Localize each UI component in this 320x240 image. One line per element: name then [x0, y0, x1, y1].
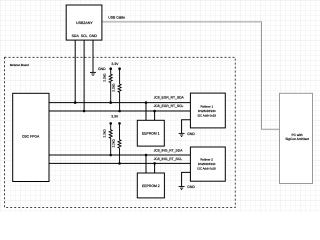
svg-text:SCL: SCL	[81, 34, 88, 38]
svg-text:2.2kΩ: 2.2kΩ	[103, 129, 107, 138]
svg-text:JC8_ING_RT_SCL: JC8_ING_RT_SCL	[154, 157, 183, 161]
svg-text:3.3V: 3.3V	[111, 115, 119, 119]
svg-text:I2C Addr 0x18: I2C Addr 0x18	[197, 167, 216, 171]
svg-text:2.2kΩ: 2.2kΩ	[112, 83, 116, 92]
svg-text:2.2kΩ: 2.2kΩ	[112, 139, 116, 148]
svg-text:USB Cable: USB Cable	[108, 15, 125, 19]
svg-text:EEPROM 1: EEPROM 1	[142, 131, 160, 135]
svg-text:EEPROM 2: EEPROM 2	[142, 184, 160, 188]
svg-text:JC8_EGR_RT_SCL: JC8_EGR_RT_SCL	[154, 104, 184, 108]
svg-text:USB2ANY: USB2ANY	[76, 21, 93, 25]
svg-text:Retimer 2: Retimer 2	[200, 157, 213, 161]
svg-text:GND: GND	[187, 132, 195, 136]
svg-text:Retimer 1: Retimer 1	[201, 104, 214, 108]
svg-text:JC8_ING_RT_SDA: JC8_ING_RT_SDA	[154, 149, 184, 153]
svg-text:SigCon Architect: SigCon Architect	[285, 137, 309, 141]
svg-text:I2C Addr 0x18: I2C Addr 0x18	[198, 114, 217, 118]
svg-text:DS250DF230: DS250DF230	[198, 109, 216, 113]
svg-text:SDA: SDA	[72, 34, 80, 38]
svg-text:GND: GND	[89, 34, 97, 38]
svg-text:JC8_EGR_RT_SDA: JC8_EGR_RT_SDA	[154, 96, 185, 100]
svg-text:GND: GND	[98, 67, 106, 71]
svg-text:3.3V: 3.3V	[111, 62, 119, 66]
svg-text:GND: GND	[187, 185, 195, 189]
svg-text:DS250DF230: DS250DF230	[198, 162, 216, 166]
svg-text:Mclaren Board: Mclaren Board	[10, 63, 29, 67]
svg-text:2.2kΩ: 2.2kΩ	[103, 73, 107, 82]
svg-text:CBC FPGA: CBC FPGA	[22, 134, 40, 138]
